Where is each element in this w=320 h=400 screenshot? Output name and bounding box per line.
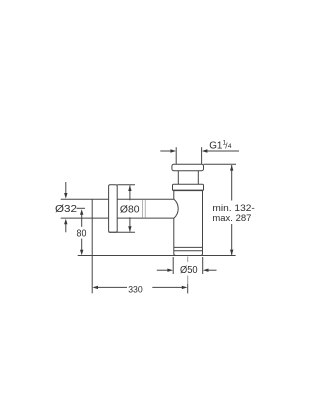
top sliding flange band: [172, 164, 204, 171]
svg-text:max. 287: max. 287: [212, 213, 251, 224]
svg-text:Ø50: Ø50: [180, 265, 198, 276]
arrow 330 right (points right): [182, 286, 188, 289]
dimension 80 line upper segment: [81, 214, 83, 227]
inlet tube G1 1/4 right wall: [201, 147, 203, 164]
arrow Ø80 bottom (points down): [128, 226, 131, 232]
arrow 80 bottom (points down): [80, 250, 83, 256]
arrow Ø50 right (points left): [203, 269, 209, 272]
dimension min/max top extension line: [204, 163, 237, 165]
dimension Ø50 left lead line: [157, 269, 168, 271]
wire: pipe bottom edge with Ø32 extension: [61, 217, 174, 219]
arrow G1 right (points left): [202, 149, 208, 152]
dimension Ø50 right lead line: [209, 269, 217, 271]
arrow min/max top (points up): [230, 165, 233, 171]
arrow Ø32 top (points down): [64, 193, 67, 199]
label Ø80 white backing: [119, 200, 143, 217]
trap body: [174, 191, 203, 256]
svg-text:4: 4: [228, 143, 232, 150]
centerline of trap (gray) lower segment: [187, 276, 189, 285]
dimension min/max line lower segment: [231, 224, 233, 255]
wire: pipe top edge with Ø32 extension: [61, 198, 174, 200]
body inner line upper: [174, 246, 203, 248]
wall flange Ø80 escutcheon: [109, 185, 118, 233]
union nut band: [173, 184, 204, 190]
neck right wall: [197, 171, 199, 184]
arrow Ø50 left (points right): [167, 269, 173, 272]
arrow min/max bottom (points down): [230, 250, 233, 256]
dimension Ø80 bottom extension line: [109, 231, 135, 233]
inlet tube G1 1/4 left wall: [175, 147, 177, 164]
trap body left edge upper segment: [173, 191, 175, 200]
svg-text:330: 330: [128, 284, 143, 295]
nut bottom edge emphasis: [173, 189, 203, 191]
dimension Ø80 top extension line: [117, 184, 135, 186]
dimension 80 top tick: [77, 207, 86, 209]
arrow G1 left (points right): [170, 149, 176, 152]
body inner line lower: [174, 250, 203, 252]
dimension Ø80 line upper segment: [129, 186, 131, 202]
pipe joint ring line 1: [142, 200, 144, 218]
svg-text:80: 80: [77, 228, 87, 239]
svg-text:G1: G1: [209, 141, 223, 152]
dimension G1 1/4 leader left segment: [160, 150, 171, 152]
dimension 330 line left segment: [98, 286, 128, 288]
dimension 330 line right segment: [152, 286, 182, 288]
arrow Ø80 top (points up): [128, 185, 131, 191]
trap bottom edge + 80 and min/max bottom extension line: [78, 254, 236, 256]
svg-text:Ø80: Ø80: [120, 204, 140, 215]
neck left wall: [177, 171, 179, 184]
pipe joint ring line 2: [144, 200, 146, 218]
dimension Ø80 line lower segment: [129, 217, 131, 232]
svg-text:Ø32: Ø32: [55, 204, 77, 215]
dimension Ø32 line upper segment: [65, 182, 67, 194]
dimension Ø32 line lower segment: [65, 224, 67, 233]
dimension Ø50 right extension line: [202, 257, 204, 274]
arrow Ø32 bottom (points up): [64, 219, 67, 225]
centerline of trap (gray) upper segment: [187, 257, 189, 263]
dimension Ø50 left extension line: [172, 257, 174, 274]
dimension 80 line lower segment: [81, 239, 83, 251]
dimension G1 1/4 leader right segment: [207, 150, 239, 152]
wall end line / 330 left extension line: [91, 199, 93, 293]
330 right extension line: [187, 284, 189, 293]
arrow 80 top (points up): [80, 209, 83, 215]
pipe rounded end cap into trap body: [174, 199, 178, 218]
dimension min/max line upper segment: [231, 165, 233, 201]
arrow 330 left (points left): [92, 286, 98, 289]
